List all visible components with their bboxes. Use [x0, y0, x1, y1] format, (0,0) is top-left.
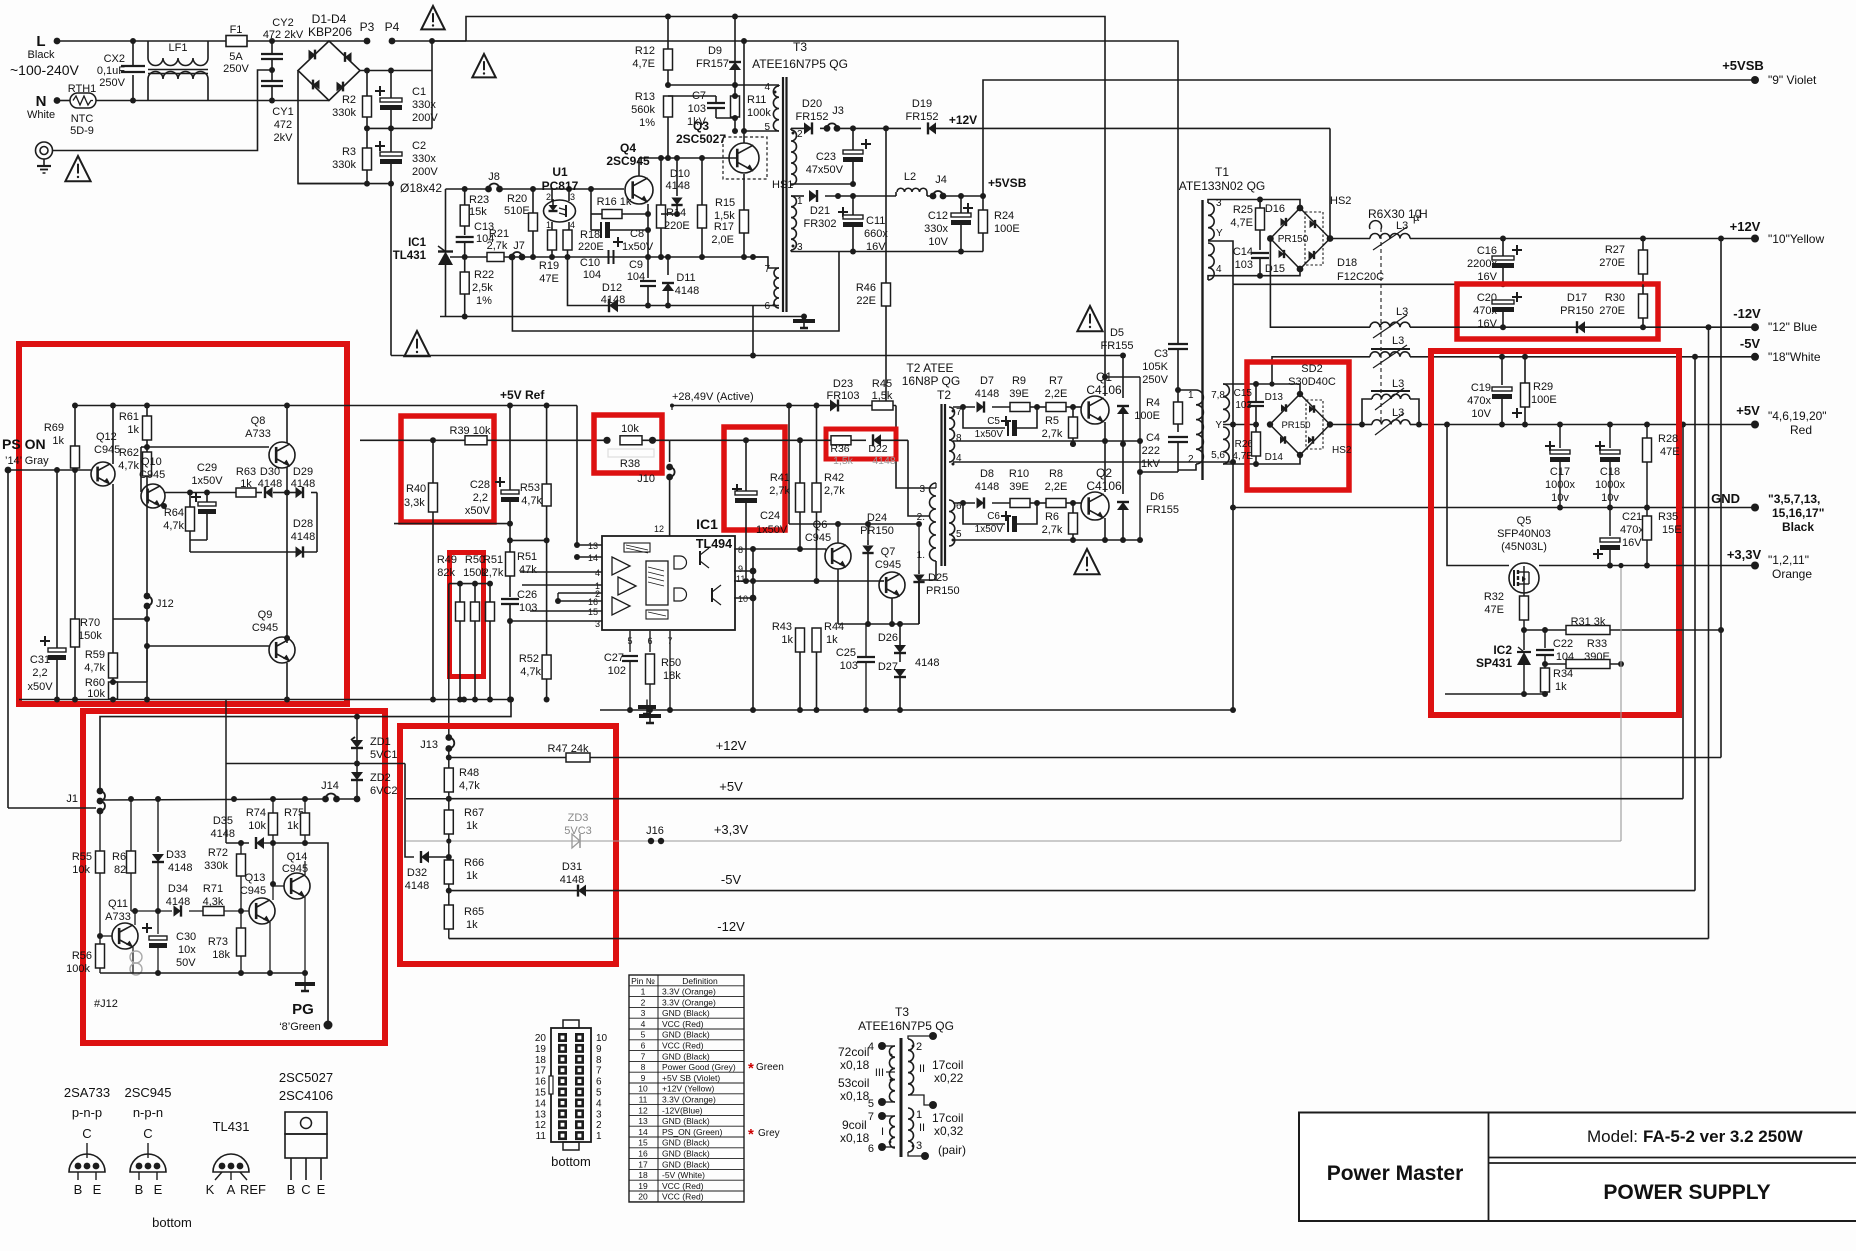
svg-text:R61: R61: [119, 411, 139, 423]
svg-text:GND (Black): GND (Black): [662, 1030, 710, 1040]
svg-text:1: 1: [641, 987, 646, 997]
capacitor C24: [732, 488, 742, 490]
svg-text:R52: R52: [519, 653, 539, 665]
svg-text:C23: C23: [816, 151, 836, 163]
svg-text:bottom: bottom: [152, 1215, 192, 1230]
svg-text:4148: 4148: [872, 455, 896, 467]
svg-text:R64: R64: [164, 507, 184, 519]
svg-text:17: 17: [638, 1159, 648, 1169]
svg-text:7: 7: [596, 1066, 602, 1077]
svg-text:R16 1k: R16 1k: [597, 196, 632, 208]
wire top bus left block: [75, 405, 347, 407]
svg-text:4148: 4148: [211, 828, 235, 840]
svg-text:R55: R55: [72, 851, 92, 863]
wire Q12 collector/emitter: [112, 406, 114, 465]
svg-text:p-n-p: p-n-p: [72, 1105, 102, 1120]
svg-text:IC1: IC1: [696, 516, 718, 532]
svg-text:SD2: SD2: [1301, 363, 1322, 375]
svg-text:4148: 4148: [975, 481, 999, 493]
wire bridge out to L3: [1330, 238, 1370, 240]
wire HV vertical x432: [431, 41, 433, 71]
wire +3.3V row: [1539, 565, 1755, 567]
svg-text:C15: C15: [1234, 388, 1253, 399]
wire +3.3V rail gray: [406, 840, 1621, 842]
wire -5V rail: [1272, 357, 1370, 384]
svg-text:R7: R7: [1049, 375, 1063, 387]
svg-text:4: 4: [595, 568, 600, 578]
svg-text:K: K: [206, 1182, 215, 1197]
svg-text:HS2: HS2: [1330, 195, 1351, 207]
svg-text:0,1uF: 0,1uF: [97, 65, 125, 77]
svg-text:100E: 100E: [994, 223, 1020, 235]
svg-text:200V: 200V: [412, 166, 438, 178]
svg-text:1k: 1k: [466, 919, 478, 931]
wire +3.3V sense drop x1621 gray: [1620, 566, 1622, 842]
wire Q11 collector: [134, 911, 136, 925]
svg-text:bottom: bottom: [551, 1154, 591, 1169]
svg-text:3: 3: [641, 1008, 646, 1018]
svg-text:"3,5,7,13,: "3,5,7,13,: [1768, 492, 1820, 506]
svg-text:~100-240V: ~100-240V: [10, 62, 80, 78]
svg-text:2SC4106: 2SC4106: [279, 1088, 333, 1103]
svg-text:15k: 15k: [469, 206, 487, 218]
svg-text:P3: P3: [360, 20, 375, 34]
svg-text:1,5k: 1,5k: [872, 390, 893, 402]
svg-text:1%: 1%: [639, 117, 655, 129]
svg-text:C2: C2: [412, 140, 426, 152]
svg-text:GND (Black): GND (Black): [662, 1159, 710, 1169]
svg-text:150k: 150k: [78, 630, 102, 642]
svg-text:VCC (Red): VCC (Red): [662, 1181, 704, 1191]
svg-text:1x50V: 1x50V: [975, 429, 1004, 440]
svg-text:J1: J1: [66, 793, 78, 805]
wire y462 pin4 line: [953, 461, 1233, 463]
svg-text:472 2kV: 472 2kV: [263, 29, 304, 41]
ground TL494: [639, 714, 661, 718]
svg-text:S30D40C: S30D40C: [1288, 376, 1336, 388]
wire top rail P3-P4: [329, 40, 367, 42]
svg-text:PC817: PC817: [542, 179, 579, 193]
svg-text:R53: R53: [520, 482, 540, 494]
svg-text:D13: D13: [1265, 392, 1284, 403]
svg-text:D5: D5: [1110, 327, 1124, 339]
svg-text:250V: 250V: [99, 77, 125, 89]
svg-text:F1: F1: [230, 24, 243, 36]
svg-text:4,7k: 4,7k: [163, 520, 184, 532]
svg-text:D25: D25: [928, 572, 948, 584]
svg-text:1: 1: [797, 196, 803, 207]
svg-text:Red: Red: [1790, 423, 1812, 437]
svg-text:R21: R21: [489, 228, 509, 240]
svg-text:19: 19: [638, 1181, 648, 1191]
svg-text:FR155: FR155: [1146, 504, 1179, 516]
svg-text:R26: R26: [1235, 439, 1254, 450]
svg-text:D7: D7: [980, 375, 994, 387]
svg-text:18: 18: [638, 1170, 648, 1180]
svg-text:C4: C4: [1146, 432, 1160, 444]
svg-text:D26: D26: [878, 632, 898, 644]
svg-text:16N8P QG: 16N8P QG: [902, 374, 960, 388]
svg-text:A733: A733: [105, 911, 131, 923]
svg-text:10: 10: [596, 1033, 608, 1044]
svg-text:REF: REF: [240, 1182, 266, 1197]
svg-text:L: L: [36, 33, 45, 50]
svg-text:A733: A733: [245, 428, 271, 440]
svg-text:1: 1: [916, 1109, 922, 1121]
svg-text:C29: C29: [197, 462, 217, 474]
svg-text:R9: R9: [1012, 375, 1026, 387]
wire N to RTH1: [57, 100, 70, 102]
svg-text:4148: 4148: [915, 657, 939, 669]
svg-text:D27: D27: [878, 661, 898, 673]
wire primary minus vertical: [390, 184, 392, 356]
svg-text:16V: 16V: [1477, 271, 1497, 283]
svg-text:270E: 270E: [1599, 305, 1625, 317]
svg-text:22E: 22E: [856, 295, 876, 307]
svg-text:VCC (Red): VCC (Red): [662, 1019, 704, 1029]
svg-text:R33: R33: [1587, 638, 1607, 650]
svg-text:4,7k: 4,7k: [459, 780, 480, 792]
wire Q9 emitter: [286, 663, 288, 700]
ghost jumper J12: [130, 951, 142, 963]
wire bridge minus down: [298, 71, 367, 184]
wire D28 output: [316, 551, 318, 553]
svg-text:J10: J10: [637, 473, 655, 485]
svg-text:Y: Y: [1215, 420, 1222, 431]
svg-text:D12: D12: [602, 282, 622, 294]
svg-text:R67: R67: [464, 807, 484, 819]
svg-text:PR150: PR150: [1278, 234, 1309, 245]
svg-text:D19: D19: [912, 98, 932, 110]
svg-text:47x50V: 47x50V: [806, 164, 844, 176]
wire N rail: [96, 100, 329, 102]
wire -5V rail: [449, 890, 1695, 892]
svg-text:R63: R63: [236, 466, 256, 478]
svg-text:R34: R34: [1553, 668, 1573, 680]
svg-text:9: 9: [596, 1044, 602, 1055]
svg-text:Q6: Q6: [813, 519, 828, 531]
svg-text:II: II: [919, 1122, 925, 1134]
svg-text:4: 4: [641, 1019, 646, 1029]
wire left block bottom bus: [19, 699, 511, 701]
svg-text:x50V: x50V: [27, 681, 53, 693]
svg-text:4148: 4148: [560, 874, 584, 886]
svg-text:+12V (Yellow): +12V (Yellow): [662, 1084, 715, 1094]
svg-text:18: 18: [535, 1055, 547, 1066]
wire Q2 emitter row y540: [953, 539, 1140, 541]
red box R39 R40: [401, 416, 494, 522]
svg-text:-5V (White): -5V (White): [662, 1170, 705, 1180]
svg-text:9: 9: [738, 564, 743, 574]
svg-text:"10"Yellow: "10"Yellow: [1768, 232, 1824, 246]
svg-text:TL431: TL431: [213, 1119, 250, 1134]
svg-text:R59: R59: [85, 649, 105, 661]
svg-text:C25: C25: [836, 647, 856, 659]
wire +12V drop x1721: [1720, 239, 1722, 758]
svg-text:R5: R5: [1045, 415, 1059, 427]
wire base row y911: [135, 910, 172, 912]
svg-text:47k: 47k: [519, 564, 537, 576]
svg-text:2: 2: [797, 129, 803, 140]
svg-text:R49: R49: [437, 554, 457, 566]
svg-text:4148: 4148: [975, 388, 999, 400]
svg-text:11: 11: [536, 1131, 547, 1142]
svg-text:10k: 10k: [621, 423, 639, 435]
svg-text:R56: R56: [72, 950, 92, 962]
svg-text:5: 5: [596, 1088, 602, 1099]
svg-text:x0,32: x0,32: [934, 1124, 964, 1138]
svg-text:R42: R42: [824, 472, 844, 484]
svg-text:POWER SUPPLY: POWER SUPPLY: [1603, 1181, 1770, 1204]
wire -12V drop x1708: [1708, 327, 1710, 938]
svg-text:C: C: [301, 1182, 310, 1197]
svg-text:R74: R74: [246, 807, 266, 819]
svg-text:Grey: Grey: [758, 1128, 780, 1139]
svg-text:FA-5-2 ver 3.2 250W: FA-5-2 ver 3.2 250W: [1643, 1127, 1804, 1146]
svg-text:C5: C5: [987, 416, 1000, 427]
svg-text:4148: 4148: [168, 862, 192, 874]
svg-text:2.: 2.: [917, 512, 925, 523]
svg-text:1k: 1k: [287, 820, 299, 832]
svg-text:T2 ATEE: T2 ATEE: [906, 361, 953, 375]
svg-text:1.: 1.: [917, 550, 925, 561]
svg-text:R24: R24: [994, 210, 1014, 222]
svg-text:Definition: Definition: [682, 976, 718, 986]
svg-text:3: 3: [570, 192, 575, 202]
svg-text:Pin №: Pin №: [631, 976, 655, 986]
svg-text:1k: 1k: [466, 870, 478, 882]
svg-text:1%: 1%: [476, 295, 492, 307]
svg-text:Black: Black: [28, 49, 55, 61]
svg-text:11: 11: [639, 1095, 648, 1105]
svg-text:1k: 1k: [466, 820, 478, 832]
svg-text:C945: C945: [805, 532, 831, 544]
svg-text:+12V: +12V: [949, 113, 977, 127]
svg-text:330x: 330x: [924, 223, 948, 235]
svg-text:D33: D33: [166, 849, 186, 861]
svg-text:F12C20C: F12C20C: [1337, 271, 1384, 283]
wire standby secondary return: [790, 250, 792, 252]
wire Q2 collector: [1104, 441, 1106, 492]
wire GND output row: [1233, 507, 1755, 509]
svg-text:103: 103: [1235, 259, 1253, 271]
svg-text:100k: 100k: [66, 963, 90, 975]
svg-text:PR150: PR150: [926, 585, 960, 597]
wire Q9 base row: [147, 645, 269, 647]
svg-text:7,8: 7,8: [1211, 390, 1225, 401]
svg-text:100E: 100E: [1134, 410, 1160, 422]
svg-text:C11: C11: [866, 215, 885, 227]
red box PS-ON comparator block: [19, 344, 347, 704]
svg-text:5A: 5A: [229, 51, 243, 63]
svg-text:J13: J13: [420, 739, 438, 751]
svg-text:FR152: FR152: [795, 111, 828, 123]
svg-text:x0,22: x0,22: [934, 1071, 964, 1085]
svg-text:R27: R27: [1605, 244, 1625, 256]
svg-text:U1: U1: [552, 165, 568, 179]
svg-text:C945: C945: [94, 444, 120, 456]
svg-text:10x: 10x: [178, 944, 196, 956]
svg-text:C945: C945: [139, 469, 165, 481]
svg-text:12: 12: [535, 1120, 547, 1131]
wire L rail: [57, 40, 227, 42]
warning triangle mid1: [404, 331, 429, 356]
wire winding to C15: [1223, 383, 1256, 385]
svg-text:+5VSB: +5VSB: [988, 176, 1027, 190]
svg-text:FR157: FR157: [696, 58, 729, 70]
svg-text:C1: C1: [412, 86, 426, 98]
svg-text:x50V: x50V: [465, 505, 491, 517]
svg-text:GND (Black): GND (Black): [662, 1008, 710, 1018]
red box J13 sense network: [400, 726, 616, 964]
ground PG: [304, 973, 306, 984]
svg-text:R51: R51: [517, 551, 537, 563]
svg-text:Q5: Q5: [1517, 515, 1532, 527]
capacitor C12: [963, 207, 973, 209]
svg-text:2: 2: [596, 1120, 602, 1131]
wire bottom HV bus: [298, 183, 391, 185]
svg-text:Q8: Q8: [251, 415, 266, 427]
svg-text:"9" Violet: "9" Violet: [1768, 73, 1817, 87]
svg-text:Q7: Q7: [881, 546, 896, 558]
svg-text:16V: 16V: [1622, 537, 1642, 549]
svg-text:4: 4: [570, 220, 575, 230]
svg-text:10k: 10k: [87, 688, 105, 700]
svg-text:2,7k: 2,7k: [769, 485, 790, 497]
svg-text:C945: C945: [875, 559, 901, 571]
svg-text:C4106: C4106: [1086, 479, 1122, 493]
svg-text:R70: R70: [80, 617, 100, 629]
svg-text:GND (Black): GND (Black): [662, 1116, 710, 1126]
svg-text:C: C: [82, 1126, 91, 1141]
wire +5V rail: [406, 798, 449, 800]
svg-text:FR152: FR152: [905, 111, 938, 123]
svg-text:470x: 470x: [1467, 395, 1491, 407]
svg-text:15: 15: [535, 1088, 547, 1099]
svg-text:20: 20: [638, 1192, 648, 1202]
svg-text:47E: 47E: [1484, 604, 1504, 616]
svg-text:R43: R43: [772, 621, 792, 633]
svg-text:E: E: [317, 1182, 326, 1197]
ground standby: [793, 319, 815, 323]
svg-text:1x50V: 1x50V: [622, 241, 654, 253]
svg-text:+12V: +12V: [716, 738, 747, 753]
svg-text:2,2: 2,2: [32, 667, 47, 679]
wire U1 pins: [551, 189, 553, 201]
svg-text:NTC: NTC: [71, 113, 94, 125]
svg-text:PR150: PR150: [860, 525, 894, 537]
svg-text:Green: Green: [756, 1062, 784, 1073]
svg-text:R41: R41: [770, 472, 790, 484]
wire D10 to R14 line: [661, 213, 677, 215]
warning triangle mid: [472, 54, 495, 77]
svg-text:T3: T3: [793, 40, 807, 54]
svg-text:R12: R12: [635, 45, 655, 57]
svg-text:16: 16: [638, 1149, 648, 1159]
svg-text:D17: D17: [1567, 292, 1587, 304]
svg-text:D18: D18: [1337, 257, 1357, 269]
svg-text:R25: R25: [1233, 204, 1253, 216]
title block: [1299, 1113, 1856, 1222]
svg-text:L3: L3: [1396, 306, 1408, 318]
svg-text:L2: L2: [904, 171, 916, 183]
capacitor CX2: [132, 41, 134, 101]
svg-text:R15: R15: [715, 197, 735, 209]
svg-text:D15: D15: [1265, 263, 1285, 275]
wire 0V centre line: [1233, 283, 1643, 285]
svg-text:15,16,17": 15,16,17": [1772, 506, 1824, 520]
svg-text:"4,6,19,20": "4,6,19,20": [1768, 409, 1827, 423]
svg-text:2SC945: 2SC945: [125, 1085, 172, 1100]
svg-text:1k: 1k: [127, 424, 139, 436]
svg-text:CX2: CX2: [104, 53, 125, 65]
wire Q1 emitter row y444: [953, 440, 1140, 442]
wire Q6 Q7 emitters to bus: [837, 569, 839, 624]
svg-text:D20: D20: [802, 98, 822, 110]
wire SD2 connections: [1256, 384, 1300, 394]
wire GND spine x1233: [1232, 284, 1234, 710]
svg-text:CY2: CY2: [272, 17, 293, 29]
wire TL494 pin10: [734, 597, 753, 599]
svg-text:3,3k: 3,3k: [404, 497, 425, 509]
svg-text:17coil: 17coil: [932, 1058, 963, 1072]
svg-text:C31: C31: [30, 654, 50, 666]
svg-text:VCC (Red): VCC (Red): [662, 1192, 704, 1202]
svg-text:47E: 47E: [539, 273, 559, 285]
svg-text:4148: 4148: [405, 880, 429, 892]
svg-text:R17: R17: [714, 221, 734, 233]
svg-text:GND (Black): GND (Black): [662, 1138, 710, 1148]
svg-text:GND (Black): GND (Black): [662, 1051, 710, 1061]
svg-text:17coil: 17coil: [932, 1111, 963, 1125]
svg-text:2,2E: 2,2E: [1045, 481, 1068, 493]
svg-text:8: 8: [956, 433, 962, 444]
wire TL494 bottom pins: [629, 631, 631, 652]
svg-text:1: 1: [596, 1131, 602, 1142]
wire T2 primary pin1 down: [919, 561, 936, 624]
svg-text:250V: 250V: [1142, 374, 1168, 386]
wire -12V rail: [449, 938, 1709, 940]
wire T1 pinY tap: [1208, 241, 1233, 284]
svg-text:220E: 220E: [578, 241, 604, 253]
transformer T1 core: [1201, 200, 1203, 480]
capacitor C16: [1512, 249, 1522, 251]
capacitor C2: [375, 145, 385, 147]
svg-text:5D-9: 5D-9: [70, 125, 94, 137]
svg-text:4,7k: 4,7k: [84, 662, 105, 674]
svg-text:D22: D22: [868, 443, 887, 455]
wire Q11 emitter: [132, 947, 134, 973]
svg-text:J4: J4: [935, 174, 947, 186]
svg-text:39E: 39E: [1009, 388, 1029, 400]
svg-text:C28: C28: [470, 479, 490, 491]
svg-text:1kV: 1kV: [1141, 458, 1161, 470]
svg-text:CY1: CY1: [272, 106, 293, 118]
svg-text:+5V SB (Violet): +5V SB (Violet): [662, 1073, 720, 1083]
svg-text:R38: R38: [620, 458, 640, 470]
svg-text:6: 6: [641, 1041, 646, 1051]
svg-text:6VC2: 6VC2: [370, 785, 398, 797]
svg-text:Q3: Q3: [693, 119, 709, 133]
svg-text:FR155: FR155: [1100, 340, 1133, 352]
svg-text:J7: J7: [513, 240, 525, 252]
svg-text:D23: D23: [833, 378, 853, 390]
svg-text:10V: 10V: [1471, 408, 1491, 420]
earth terminal: [36, 142, 53, 159]
svg-text:2,2E: 2,2E: [1045, 388, 1068, 400]
wire T2 pin2 to Q6/Q7 area: [908, 440, 929, 516]
svg-text:D6: D6: [1150, 491, 1164, 503]
